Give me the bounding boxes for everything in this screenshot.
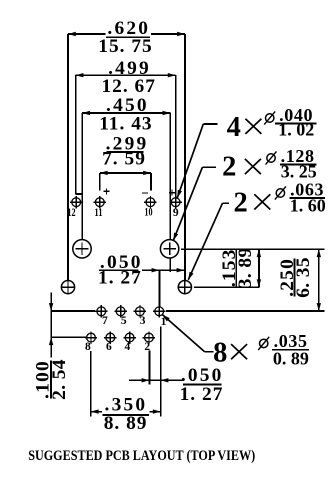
- svg-text:6. 35: 6. 35: [293, 257, 314, 298]
- svg-text:2. 54: 2. 54: [49, 359, 70, 400]
- svg-text:15. 75: 15. 75: [98, 36, 152, 57]
- svg-text:3. 89: 3. 89: [235, 247, 256, 288]
- svg-text:4: 4: [227, 112, 241, 143]
- svg-text:12. 67: 12. 67: [101, 76, 155, 97]
- svg-text:3: 3: [140, 315, 146, 327]
- svg-text:6: 6: [106, 341, 112, 353]
- svg-text:1. 27: 1. 27: [98, 267, 142, 288]
- svg-text:2: 2: [144, 341, 150, 353]
- svg-text:10: 10: [144, 207, 152, 219]
- svg-text:4: 4: [125, 341, 131, 353]
- svg-text:8: 8: [213, 338, 227, 369]
- svg-text:7: 7: [102, 315, 108, 327]
- svg-text:5: 5: [121, 315, 127, 327]
- svg-text:1. 60: 1. 60: [290, 196, 326, 216]
- svg-text:2: 2: [222, 152, 236, 183]
- svg-text:8. 89: 8. 89: [104, 413, 148, 434]
- svg-text:1: 1: [161, 316, 167, 328]
- svg-text:2: 2: [233, 188, 247, 219]
- svg-text:11. 43: 11. 43: [99, 113, 152, 134]
- svg-text:11: 11: [94, 207, 102, 219]
- svg-text:8: 8: [85, 341, 91, 353]
- svg-text:1. 27: 1. 27: [180, 384, 224, 405]
- svg-text:7. 59: 7. 59: [102, 149, 146, 170]
- svg-text:9: 9: [173, 207, 179, 219]
- svg-text:SUGGESTED PCB LAYOUT (TOP VIEW: SUGGESTED PCB LAYOUT (TOP VIEW): [28, 448, 255, 464]
- svg-text:12: 12: [67, 207, 75, 219]
- svg-text:0. 89: 0. 89: [273, 348, 309, 368]
- svg-text:1. 02: 1. 02: [278, 120, 314, 140]
